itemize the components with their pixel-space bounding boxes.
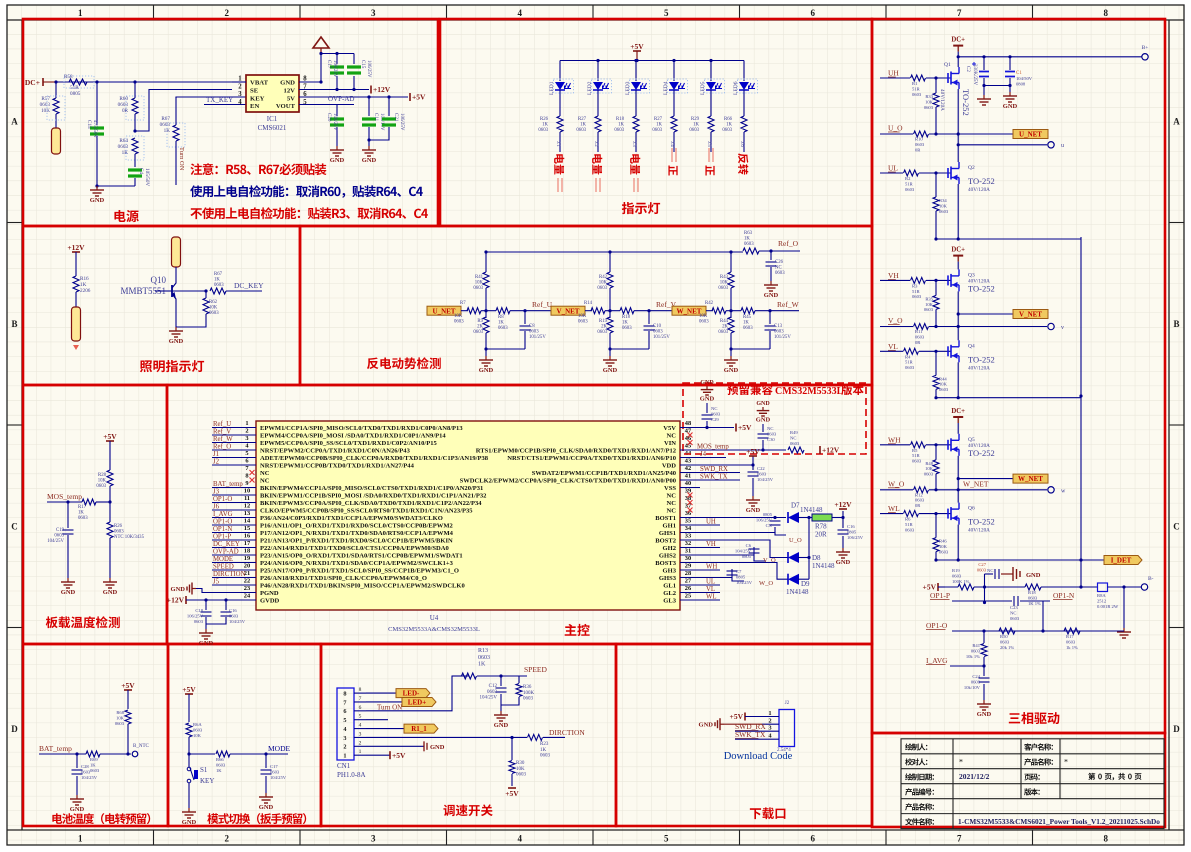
border column ticks and labels bbox=[154, 5, 1033, 845]
shunt resistor R8A 2512 0.001R bbox=[1098, 583, 1108, 592]
svg-text:+5V: +5V bbox=[505, 789, 519, 798]
port circle B- bbox=[1141, 584, 1147, 590]
svg-text:R42: R42 bbox=[705, 301, 714, 306]
svg-text:TO-252: TO-252 bbox=[968, 176, 995, 186]
svg-text:C16: C16 bbox=[847, 524, 855, 529]
resistor R42 10K upper bbox=[609, 252, 611, 272]
svg-text:10K: 10K bbox=[939, 544, 948, 549]
svg-text:0603: 0603 bbox=[194, 619, 204, 624]
svg-text:GND: GND bbox=[724, 367, 739, 374]
svg-text:WL: WL bbox=[888, 504, 900, 513]
wire pin8 to LED- bbox=[366, 692, 396, 694]
svg-text:101/25V: 101/25V bbox=[653, 335, 670, 340]
svg-text:C18: C18 bbox=[195, 608, 203, 613]
svg-text:R12: R12 bbox=[915, 492, 923, 497]
svg-text:Ref_W: Ref_W bbox=[777, 300, 800, 309]
svg-text:EPWM4/CCP0A/SPI0_MOSI /SDA0/T: EPWM4/CCP0A/SPI0_MOSI /SDA0/TXD1/RXD1/C0… bbox=[260, 432, 446, 439]
svg-text:0805: 0805 bbox=[70, 91, 81, 97]
svg-text:0603: 0603 bbox=[90, 768, 100, 773]
wire pin1 to +5V bbox=[366, 754, 390, 756]
NC x pin46 bbox=[688, 440, 693, 445]
title 电源 bbox=[114, 210, 138, 222]
svg-text:GND: GND bbox=[700, 395, 715, 402]
svg-text:100K: 100K bbox=[523, 691, 535, 696]
svg-text:40V/120A: 40V/120A bbox=[968, 528, 990, 534]
svg-text:WH: WH bbox=[706, 564, 717, 571]
svg-text:106/25V: 106/25V bbox=[399, 113, 404, 131]
port circle B_NTC bbox=[132, 751, 138, 757]
capacitor CX 106/25V bbox=[774, 518, 776, 520]
svg-text:1K: 1K bbox=[90, 762, 96, 767]
svg-text:VOUT: VOUT bbox=[276, 103, 296, 110]
port +5V indicator bbox=[633, 50, 641, 52]
ground C11 bbox=[368, 146, 370, 150]
svg-text:0603: 0603 bbox=[711, 411, 721, 416]
wire resistor to tag 5 bbox=[710, 132, 712, 152]
svg-text:v: v bbox=[1061, 325, 1064, 331]
net label Ref_O bbox=[759, 250, 800, 252]
svg-text:DC_KEY: DC_KEY bbox=[234, 281, 264, 290]
svg-text:+12V: +12V bbox=[822, 446, 840, 455]
resistor R17 1K bbox=[82, 499, 96, 505]
svg-text:0603: 0603 bbox=[915, 142, 925, 147]
svg-text:0603: 0603 bbox=[912, 294, 922, 299]
svg-text:2: 2 bbox=[343, 744, 346, 751]
svg-text:VH: VH bbox=[706, 541, 716, 548]
wire upper source to mid bbox=[957, 456, 959, 503]
svg-text:C24: C24 bbox=[972, 674, 980, 679]
svg-text:Ref_V: Ref_V bbox=[213, 429, 231, 436]
svg-text:20k 1%: 20k 1% bbox=[1000, 645, 1014, 650]
svg-text:1K: 1K bbox=[743, 321, 749, 326]
MCU left pin wires and labels bbox=[212, 427, 256, 429]
wire MOS_temp bbox=[47, 501, 82, 503]
LED LED4 bbox=[672, 59, 675, 62]
svg-text:+12V: +12V bbox=[373, 85, 391, 94]
svg-text:C12: C12 bbox=[489, 684, 498, 689]
svg-text:0603: 0603 bbox=[915, 334, 925, 339]
svg-text:RTS1/EPWM0/CCP1B/SPI0_CLK/SDA0: RTS1/EPWM0/CCP1B/SPI0_CLK/SDA0/RXD0/TXD1… bbox=[476, 447, 676, 454]
svg-text:C8: C8 bbox=[529, 324, 535, 329]
svg-text:0603: 0603 bbox=[905, 365, 915, 370]
title 板载温度检测 bbox=[46, 616, 120, 628]
svg-text:OP1-N: OP1-N bbox=[213, 526, 232, 533]
region box speed switch bbox=[321, 644, 616, 826]
svg-text:12: 12 bbox=[244, 503, 250, 510]
resistor R66 1K bbox=[216, 751, 230, 757]
svg-text:R6A: R6A bbox=[193, 722, 202, 727]
svg-text:OVP-AD: OVP-AD bbox=[328, 95, 354, 103]
wire lower source to bottom rail bbox=[957, 525, 959, 560]
svg-text:P23/AN15/OP0_O/RXD1/TXD1/SDA0/: P23/AN15/OP0_O/RXD1/TXD1/SDA0/RTS1/CCP0B… bbox=[260, 552, 463, 559]
resistor R58 51R bbox=[64, 76, 94, 88]
capacitor C11 106/10V bbox=[368, 97, 370, 116]
LED LED2 bbox=[596, 59, 599, 62]
svg-text:104/25V: 104/25V bbox=[81, 775, 98, 780]
svg-text:J.3: J.3 bbox=[631, 141, 636, 147]
wire pin45 MOS_temp bbox=[680, 449, 786, 451]
capacitor C23 NC bbox=[1013, 596, 1015, 606]
svg-text:10K: 10K bbox=[925, 99, 934, 104]
svg-text:R43: R43 bbox=[720, 275, 729, 280]
svg-text:106/25V: 106/25V bbox=[332, 60, 337, 78]
port +5V opamp bbox=[937, 583, 939, 591]
wire pin25 WL bbox=[680, 599, 720, 601]
connector J2 2.54*4 bbox=[779, 710, 795, 747]
svg-text:GND: GND bbox=[169, 338, 184, 345]
svg-text:5: 5 bbox=[664, 834, 669, 844]
svg-text:3: 3 bbox=[343, 735, 346, 742]
wire OP1-N down bbox=[1042, 601, 1044, 631]
svg-text:1K: 1K bbox=[656, 123, 662, 128]
wire pin3 DIRCTION row bbox=[366, 736, 527, 738]
resistor R41 10k1% bbox=[982, 629, 985, 632]
svg-text:51R: 51R bbox=[912, 289, 921, 294]
ground Ref_O bbox=[770, 281, 772, 285]
svg-text:1K: 1K bbox=[214, 278, 220, 283]
svg-text:0603: 0603 bbox=[54, 534, 64, 539]
port +5V mode bbox=[185, 693, 193, 695]
wire pin34 GHS1 to CX bbox=[680, 532, 775, 534]
port +12V diodes bbox=[832, 517, 843, 519]
capacitor C16b 106/25V bbox=[842, 518, 844, 529]
resistor R6B 10K bbox=[125, 710, 131, 724]
svg-text:DC+: DC+ bbox=[951, 408, 965, 415]
svg-text:51R: 51R bbox=[912, 86, 921, 91]
wire LED to resistor 1 bbox=[559, 90, 561, 116]
svg-text:R66: R66 bbox=[216, 757, 224, 762]
svg-text:J4: J4 bbox=[700, 451, 707, 458]
svg-text:R62: R62 bbox=[209, 300, 218, 305]
svg-text:C: C bbox=[11, 521, 18, 531]
svg-text:NTC 10K/3435: NTC 10K/3435 bbox=[114, 535, 145, 540]
wire +5V LED rail bbox=[560, 60, 744, 62]
wire pin26 VL bbox=[680, 592, 720, 594]
svg-text:TO-252: TO-252 bbox=[961, 89, 971, 116]
port +12V MCU bbox=[185, 596, 187, 604]
svg-text:0603: 0603 bbox=[790, 441, 800, 446]
svg-text:0603: 0603 bbox=[718, 286, 728, 291]
svg-text:C30: C30 bbox=[767, 437, 775, 442]
svg-text:0603: 0603 bbox=[614, 128, 624, 133]
svg-text:0603: 0603 bbox=[473, 286, 483, 291]
svg-text:0603: 0603 bbox=[744, 242, 754, 247]
wire LED to resistor 3 bbox=[635, 90, 637, 116]
wire LED to resistor 5 bbox=[710, 90, 712, 116]
svg-text:Ref_O: Ref_O bbox=[778, 239, 799, 248]
svg-text:R13: R13 bbox=[478, 648, 488, 654]
svg-text:R27: R27 bbox=[578, 117, 587, 122]
wire mid row V bbox=[880, 326, 913, 328]
svg-text:P26/AN18/RXD1/TXD1/SPI0_CLK/CC: P26/AN18/RXD1/TXD1/SPI0_CLK/CCP0A/EPWM4/… bbox=[260, 575, 427, 582]
svg-text:CMS32M5533L: CMS32M5533L bbox=[775, 386, 844, 397]
svg-text:R63: R63 bbox=[744, 231, 753, 236]
net label box W_NET stub bbox=[958, 478, 1013, 480]
svg-text:NC: NC bbox=[667, 500, 677, 507]
svg-text:+5V: +5V bbox=[392, 751, 406, 760]
resistor series-in R14 bbox=[585, 310, 592, 312]
capacitor C7 104/25V bbox=[680, 577, 732, 579]
mosfet Q5 TO-252 upper bbox=[947, 440, 949, 450]
ground C24 bbox=[983, 700, 985, 704]
resistor R28 1K bbox=[633, 116, 639, 132]
svg-text:Q6: Q6 bbox=[968, 506, 975, 512]
region box battery temp bbox=[23, 644, 168, 826]
net label box U_NET bbox=[427, 306, 461, 315]
svg-text:OP1-N: OP1-N bbox=[1053, 591, 1075, 600]
svg-text:LED2: LED2 bbox=[587, 81, 593, 95]
red vertical label 6 bbox=[738, 153, 748, 174]
svg-text:1-CMS32M5533&CMS6021_Power Too: 1-CMS32M5533&CMS6021_Power Tools_V1.2_20… bbox=[958, 817, 1160, 826]
svg-text:NC: NC bbox=[667, 492, 677, 499]
ground B- branch bbox=[1123, 587, 1125, 628]
resistor R23 1K bbox=[528, 734, 543, 740]
title 调速开关 bbox=[443, 804, 492, 816]
svg-text:GND: GND bbox=[1026, 572, 1041, 579]
svg-text:8: 8 bbox=[245, 473, 248, 480]
svg-text:0603: 0603 bbox=[653, 330, 663, 335]
svg-text:U4: U4 bbox=[430, 614, 439, 622]
wire pin5 bbox=[366, 719, 388, 721]
svg-text:104/25V: 104/25V bbox=[47, 539, 64, 544]
svg-text:V_NET: V_NET bbox=[1019, 311, 1042, 319]
svg-text:5: 5 bbox=[359, 714, 362, 720]
svg-text:EPWM1/CCP1A/SPI0_MISO/SCL0/TXD: EPWM1/CCP1A/SPI0_MISO/SCL0/TXD0/TXD1/RXD… bbox=[260, 425, 463, 432]
capacitor C28 104/25V bbox=[76, 754, 78, 768]
svg-text:10K: 10K bbox=[720, 281, 729, 286]
svg-text:R69: R69 bbox=[90, 757, 98, 762]
node junction U_NET bbox=[481, 310, 486, 312]
svg-text:SWK_TX: SWK_TX bbox=[735, 730, 766, 739]
capacitor C22 104/25V bbox=[752, 465, 754, 470]
wire resistor to tag 3 bbox=[635, 132, 637, 152]
svg-text:0805: 0805 bbox=[736, 574, 746, 579]
node junction W_NET bbox=[726, 310, 731, 312]
resistor R6A 10K bbox=[186, 723, 192, 737]
resistor R64 1K bbox=[126, 136, 144, 160]
capacitor C6 104/25V bbox=[680, 554, 754, 556]
svg-text:DIRCTION: DIRCTION bbox=[549, 728, 585, 737]
svg-text:R26: R26 bbox=[114, 524, 123, 529]
svg-text:WL: WL bbox=[706, 594, 717, 601]
ground C18 bbox=[205, 629, 207, 633]
diode D9 bbox=[788, 574, 799, 585]
svg-text:GND: GND bbox=[494, 722, 509, 729]
node junction V_NET bbox=[605, 310, 610, 312]
resistor R34 10K gate pulldown lower bbox=[935, 173, 937, 197]
svg-text:41: 41 bbox=[685, 473, 691, 480]
svg-text:R68: R68 bbox=[116, 710, 124, 715]
svg-text:OP1-O: OP1-O bbox=[213, 496, 232, 503]
svg-text:26: 26 bbox=[685, 585, 692, 592]
svg-text:D: D bbox=[1173, 724, 1180, 734]
svg-text:NC: NC bbox=[667, 507, 677, 514]
svg-text:P16/AN11/OP1_O/RXD1/TXD1/RXD0/: P16/AN11/OP1_O/RXD1/TXD1/RXD0/SCL0/CTS0/… bbox=[260, 522, 453, 529]
svg-text:C10: C10 bbox=[653, 324, 662, 329]
svg-text:106/25V: 106/25V bbox=[366, 60, 371, 78]
svg-text:GH1: GH1 bbox=[663, 522, 676, 529]
svg-text:2K: 2K bbox=[722, 325, 728, 330]
svg-text:GND: GND bbox=[430, 744, 445, 751]
svg-text:10k/10V: 10k/10V bbox=[964, 685, 981, 690]
svg-text:J.6: J.6 bbox=[739, 141, 744, 147]
wire emitter to gnd bbox=[175, 316, 177, 327]
svg-text:V_O: V_O bbox=[888, 316, 903, 325]
capacitor C17 106/25V bbox=[336, 54, 338, 65]
wire mode row bbox=[189, 753, 215, 755]
bus vertical right bbox=[1080, 237, 1082, 587]
svg-text:0.001R 2W: 0.001R 2W bbox=[1097, 604, 1119, 609]
svg-text:3: 3 bbox=[371, 834, 376, 844]
net label Ref_U bbox=[510, 310, 554, 312]
note red line1 bbox=[190, 163, 326, 175]
net tag LED+ vertical collector bbox=[172, 237, 181, 267]
ground C20 bbox=[336, 146, 338, 150]
svg-text:GL3: GL3 bbox=[663, 597, 676, 604]
svg-text:P36/AN24/C0P3/RXD1/TXD1/CCP1A/: P36/AN24/C0P3/RXD1/TXD1/CCP1A/EPWM0/SWDA… bbox=[260, 515, 443, 522]
svg-text:7: 7 bbox=[343, 699, 346, 706]
svg-text:6: 6 bbox=[811, 834, 816, 844]
svg-text:P25/AN17/OP0_P/RXD1/TXD1/SCL0/: P25/AN17/OP0_P/RXD1/TXD1/SCL0/SPI0_SS/CC… bbox=[260, 567, 459, 574]
wire BAT_temp row bbox=[39, 753, 86, 755]
svg-text:0603: 0603 bbox=[1010, 616, 1020, 621]
svg-text:D7: D7 bbox=[791, 502, 800, 510]
red vertical label 1 bbox=[554, 154, 564, 174]
svg-text:30: 30 bbox=[685, 555, 691, 562]
capacitor C29 NC bbox=[706, 421, 708, 428]
port circle w bbox=[929, 489, 1047, 491]
svg-text:9: 9 bbox=[245, 480, 248, 487]
svg-text:1K: 1K bbox=[726, 123, 732, 128]
svg-text:J2: J2 bbox=[785, 701, 790, 706]
svg-text:NRST/EPWM1/CCP0B/TXD0/TXD1/RXD: NRST/EPWM1/CCP0B/TXD0/TXD1/RXD1/AN27/P44 bbox=[260, 462, 415, 469]
svg-text:0603: 0603 bbox=[971, 679, 981, 684]
wire gnd rail V_NET bbox=[610, 348, 649, 350]
svg-text:1K: 1K bbox=[164, 128, 171, 134]
capacitor C24 104/10V bbox=[983, 666, 985, 676]
svg-text:C11: C11 bbox=[373, 113, 378, 122]
svg-text:GND: GND bbox=[700, 380, 714, 386]
svg-text:R7: R7 bbox=[460, 301, 466, 306]
svg-text:0603: 0603 bbox=[971, 648, 981, 653]
port +12V bbox=[370, 86, 372, 94]
resistor R27 1K bbox=[595, 116, 601, 132]
port circle B+ bbox=[1142, 54, 1148, 60]
svg-text:R41: R41 bbox=[972, 643, 980, 648]
svg-text:DC+: DC+ bbox=[951, 247, 965, 254]
capacitor C4 105/50V bbox=[128, 168, 142, 171]
svg-text:R18: R18 bbox=[616, 117, 625, 122]
resistor R44 2K lower bbox=[730, 311, 732, 318]
wire gnd rail W_NET bbox=[731, 348, 770, 350]
svg-text:10K: 10K bbox=[475, 281, 484, 286]
svg-text:5: 5 bbox=[245, 450, 248, 457]
svg-text:R28: R28 bbox=[98, 473, 107, 478]
wire resistor to tag 4 bbox=[673, 132, 675, 152]
svg-text:6: 6 bbox=[811, 8, 816, 18]
svg-text:2512: 2512 bbox=[1097, 598, 1107, 603]
svg-text:23: 23 bbox=[244, 585, 250, 592]
svg-text:0R: 0R bbox=[122, 108, 129, 114]
svg-text:BAT_temp: BAT_temp bbox=[213, 481, 243, 488]
resistor R1 51R bbox=[911, 75, 926, 81]
svg-text:1: 1 bbox=[78, 834, 83, 844]
LED LED3 bbox=[634, 59, 637, 62]
wire DC+ rail bbox=[56, 81, 246, 83]
mosfet Q1 TO-252 upper bbox=[947, 73, 949, 83]
svg-text:0R: 0R bbox=[915, 503, 921, 508]
svg-text:D9: D9 bbox=[801, 580, 810, 588]
port +5V download bbox=[744, 713, 746, 721]
wire to pin2 bbox=[135, 90, 232, 132]
svg-text:0603: 0603 bbox=[1028, 595, 1038, 600]
svg-text:2K: 2K bbox=[477, 325, 483, 330]
svg-text:TO-252: TO-252 bbox=[968, 354, 995, 364]
svg-text:Q10: Q10 bbox=[151, 275, 167, 285]
net label DC_KEY bbox=[226, 290, 262, 292]
svg-text:1K: 1K bbox=[122, 150, 129, 156]
svg-text:DC+: DC+ bbox=[951, 37, 965, 44]
wire pin31 BOST3 D9 bbox=[680, 563, 788, 580]
svg-text:43: 43 bbox=[685, 458, 691, 465]
svg-text:R17: R17 bbox=[1066, 634, 1074, 639]
svg-text:+5V: +5V bbox=[738, 423, 752, 432]
svg-text:0603: 0603 bbox=[229, 613, 239, 618]
svg-text:1K: 1K bbox=[622, 321, 628, 326]
svg-text:8: 8 bbox=[1104, 8, 1109, 18]
svg-text:C15: C15 bbox=[360, 60, 365, 69]
resistor R12 0R bbox=[914, 487, 929, 493]
capacitor C2 330K/25V electrolytic bbox=[983, 57, 985, 70]
svg-text:17: 17 bbox=[244, 540, 251, 547]
svg-text:10K: 10K bbox=[116, 715, 125, 720]
svg-text:105/50V: 105/50V bbox=[144, 168, 150, 186]
resistor R43 10K upper bbox=[730, 252, 732, 272]
svg-text:LED3: LED3 bbox=[625, 81, 631, 95]
svg-text:OVP-AD: OVP-AD bbox=[213, 549, 239, 556]
svg-text:10K: 10K bbox=[209, 306, 218, 311]
svg-text:51R: 51R bbox=[905, 360, 914, 365]
note navy line2 bbox=[190, 185, 423, 197]
svg-text:GND: GND bbox=[756, 416, 771, 423]
svg-text:C6: C6 bbox=[746, 543, 752, 548]
svg-text:Ref_W: Ref_W bbox=[213, 436, 233, 443]
wire resistor to tag 1 bbox=[559, 132, 561, 152]
svg-text:C4: C4 bbox=[138, 168, 144, 174]
svg-text:0603: 0603 bbox=[209, 311, 219, 316]
resistor R9 2K lower bbox=[485, 311, 487, 318]
svg-text:R44: R44 bbox=[939, 376, 947, 381]
svg-text:Turn ON: Turn ON bbox=[178, 147, 185, 171]
svg-text:4: 4 bbox=[359, 723, 362, 729]
svg-text:0805: 0805 bbox=[742, 554, 752, 559]
capacitor C10 bbox=[647, 309, 650, 312]
node junction R28/NTC bbox=[108, 500, 111, 503]
ground download sideways bbox=[720, 723, 724, 725]
wire pin4 EN bbox=[176, 97, 232, 98]
svg-text:W_NET: W_NET bbox=[677, 307, 702, 315]
LED LED5 bbox=[709, 59, 712, 62]
wire VH gate bbox=[880, 279, 910, 281]
wire R16 to tag bbox=[75, 292, 77, 307]
svg-text:TO-252: TO-252 bbox=[968, 448, 995, 458]
wire pin6 TurnON bbox=[366, 676, 469, 711]
node junction C11 bbox=[367, 95, 370, 98]
svg-text:NC: NC bbox=[790, 435, 796, 440]
region box power bbox=[23, 19, 438, 226]
svg-text:J.2: J.2 bbox=[593, 141, 598, 147]
svg-text:GHS2: GHS2 bbox=[659, 552, 676, 559]
